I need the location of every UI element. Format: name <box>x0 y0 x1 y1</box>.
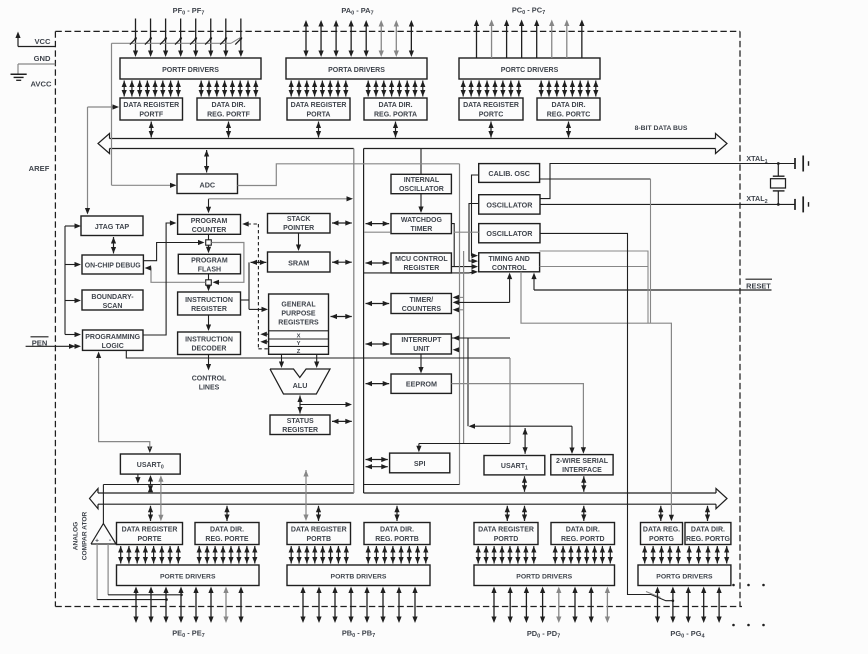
svg-text:ALU: ALU <box>293 381 308 390</box>
svg-text:SPI: SPI <box>414 459 426 468</box>
svg-text:8-BIT DATA BUS: 8-BIT DATA BUS <box>635 125 688 132</box>
svg-text:JTAG TAP: JTAG TAP <box>95 222 130 231</box>
svg-text:COMPAR ATOR: COMPAR ATOR <box>82 512 89 561</box>
svg-text:-: - <box>109 537 111 544</box>
svg-text:X: X <box>297 333 301 339</box>
svg-text:GENERALPURPOSEREGISTERS: GENERALPURPOSEREGISTERS <box>278 301 319 326</box>
svg-text:SRAM: SRAM <box>288 258 309 267</box>
svg-text:+: + <box>95 538 99 545</box>
svg-text:GND: GND <box>34 54 51 63</box>
svg-text:PORTC DRIVERS: PORTC DRIVERS <box>501 67 559 74</box>
svg-text:RESET: RESET <box>746 282 771 291</box>
svg-text:AREF: AREF <box>29 164 50 173</box>
svg-text:PORTE DRIVERS: PORTE DRIVERS <box>160 573 216 580</box>
svg-text:PORTG DRIVERS: PORTG DRIVERS <box>656 573 713 580</box>
svg-text:OSCILLATOR: OSCILLATOR <box>486 200 533 209</box>
svg-text:OSCILLATOR: OSCILLATOR <box>486 229 533 238</box>
svg-text:Z: Z <box>297 349 301 355</box>
svg-text:ANALOG: ANALOG <box>73 522 80 551</box>
svg-text:PORTF DRIVERS: PORTF DRIVERS <box>162 67 219 74</box>
svg-text:CALIB. OSC: CALIB. OSC <box>488 169 530 178</box>
svg-text:AVCC: AVCC <box>31 80 52 89</box>
svg-text:PORTA DRIVERS: PORTA DRIVERS <box>328 67 385 74</box>
svg-text:PORTD DRIVERS: PORTD DRIVERS <box>516 573 572 580</box>
svg-text:ON-CHIP DEBUG: ON-CHIP DEBUG <box>85 263 141 270</box>
svg-text:EEPROM: EEPROM <box>406 380 437 389</box>
svg-text:VCC: VCC <box>34 37 51 46</box>
svg-text:Y: Y <box>297 341 301 347</box>
svg-text:PORTB DRIVERS: PORTB DRIVERS <box>331 573 387 580</box>
svg-text:ADC: ADC <box>200 180 216 189</box>
